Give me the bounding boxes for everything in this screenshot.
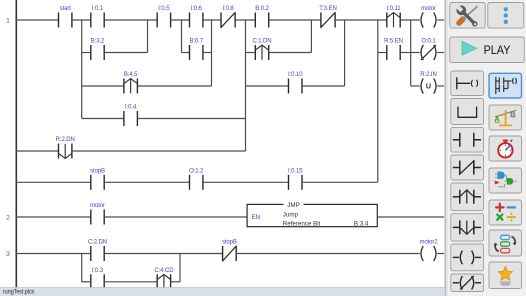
svg-text:B:3.2: B:3.2: [91, 39, 105, 45]
svg-text:I:0.1: I:0.1: [92, 6, 104, 12]
right toolbar panel background: [445, 0, 526, 296]
svg-text:C:4.CD: C:4.CD: [154, 268, 174, 274]
svg-text:I:0.4: I:0.4: [125, 105, 137, 111]
svg-text:I:0.10: I:0.10: [288, 72, 303, 78]
svg-text:I:0.8: I:0.8: [222, 6, 234, 12]
wire junction vertical v3 B:0.7 branch start: [181, 20, 183, 53]
svg-text:2: 2: [6, 214, 10, 221]
wire junction vertical v7 I:0.10 rejoin: [344, 20, 346, 86]
contact I:0.11 (osr_up): [387, 13, 400, 28]
status bar: [0, 288, 445, 296]
wire R:2.DN branch rail lead: [16, 150, 59, 152]
wire rung2 rail to motor contact: [16, 216, 91, 218]
contact I:0.1 (no): [91, 13, 104, 28]
contact B:0.2 (no): [255, 13, 268, 28]
wire O:0.1 coil left lead: [411, 52, 420, 54]
wire rung2 motor contact to JMP box: [104, 216, 247, 218]
svg-text:EN: EN: [252, 214, 261, 221]
contact stopB (no): [91, 175, 104, 190]
contact I:0.3 (no): [91, 274, 104, 289]
wire junction vertical v1 after start down to I:0.4 row: [81, 20, 83, 119]
contact B:3.2 (no): [91, 45, 104, 60]
wire rung3 stopB to motor2 coil: [236, 253, 420, 255]
wire rung3 branch I:0.3 to C:4.CD: [104, 281, 157, 283]
svg-text:stopB: stopB: [222, 240, 237, 246]
contact R:2.DN (osr_dn): [59, 144, 72, 159]
wire I:0.15 to junction v8: [302, 181, 378, 183]
button tool sequence/loop: [489, 230, 522, 256]
wire rung1 I:0.8 to B:0.2: [235, 19, 255, 21]
svg-text:I:0.11: I:0.11: [387, 6, 402, 12]
wire rung3 rail to C:2.DN: [16, 253, 91, 255]
contact I:0.8 (nc): [221, 12, 236, 28]
svg-text:I:0.3: I:0.3: [92, 268, 104, 274]
button tool timer (stopwatch): [489, 136, 522, 161]
wire O:1.2 to I:0.15: [203, 181, 289, 183]
wire C:1.DN branch left lead: [246, 52, 256, 54]
contact B:4.5 (osr_up): [124, 79, 137, 94]
button settings (wrench & screwdriver): [450, 3, 485, 29]
wire rung1 T:3.EN to I:0.11: [335, 19, 387, 21]
wire rung1 motor coil to right end: [437, 19, 444, 21]
wire junction vertical v9 output branch junction: [410, 20, 412, 86]
contact C:4.CD (osr_up): [157, 274, 170, 289]
svg-text:R:2.DN: R:2.DN: [56, 137, 75, 143]
wire junction vertical v8 long junction to stopB row: [377, 20, 379, 182]
svg-text:Reference Bit: Reference Bit: [283, 220, 321, 227]
wire junction vertical v11 rung3 branch rejoin: [179, 254, 181, 282]
contact T:3.EN (nc): [321, 12, 336, 28]
wire stopB row rail lead: [16, 181, 91, 183]
wire R:5.EN branch left lead: [378, 52, 387, 54]
button tool new-rung: [451, 71, 484, 96]
svg-text:motor2: motor2: [419, 240, 438, 246]
wire B:0.7 branch left lead: [182, 52, 190, 54]
wire junction vertical v10 rung3 branch start: [81, 254, 83, 282]
button tool compare (scales): [489, 105, 522, 130]
wire R:5.EN branch right lead: [400, 52, 411, 54]
wire I:0.4 branch left lead: [82, 118, 124, 120]
svg-text:O:0.1: O:0.1: [421, 39, 436, 45]
svg-text:1: 1: [6, 17, 10, 24]
wire rung1 I:0.1 to I:0.5: [104, 19, 157, 21]
wire junction vertical v6 C:1.DN rejoin: [310, 20, 312, 53]
wire junction vertical v2 B:3.2 rejoin: [147, 20, 149, 53]
button PLAY button: [450, 37, 524, 63]
contact start (no): [59, 13, 72, 28]
contact C:2.DN (no): [91, 246, 104, 261]
button tool branch: [451, 99, 484, 125]
svg-text:I:0.15: I:0.15: [288, 169, 303, 175]
button tool math operations: [489, 200, 522, 225]
svg-text:B: B: [510, 109, 515, 118]
contact I:0.15 (no): [289, 175, 303, 190]
button tool coil negated: [451, 274, 484, 292]
svg-text:3: 3: [6, 251, 10, 258]
svg-text:motor: motor: [421, 6, 436, 12]
contact I:0.5 (no): [157, 13, 170, 28]
wire rung3 C:2.DN to stopB: [104, 253, 222, 255]
wire B:4.5 branch left lead: [82, 85, 124, 87]
coil O:0.1 (neg): [421, 45, 436, 60]
wire B:4.5 branch right lead: [137, 85, 211, 87]
coil motor2 (plain): [421, 246, 436, 261]
svg-text:R:5.EN: R:5.EN: [384, 39, 403, 45]
wire B:0.7 branch right lead: [203, 52, 212, 54]
svg-text:motor: motor: [90, 203, 105, 209]
wire rung1 I:0.6 to I:0.8: [203, 19, 221, 21]
svg-text:PLAY: PLAY: [484, 43, 511, 57]
contact B:0.7 (no): [190, 45, 203, 60]
button tool contact NC: [451, 155, 484, 180]
button tool one-shot rising: [451, 183, 484, 211]
wire rung1 I:0.5 to I:0.6: [171, 19, 190, 21]
wire I:0.10 branch right lead: [302, 85, 345, 87]
wire O:0.1 coil right lead: [437, 52, 444, 54]
svg-text:U: U: [426, 82, 431, 91]
wire R:2.DN branch right lead: [72, 150, 246, 152]
wire stopB to O:1.2: [104, 181, 189, 183]
button tool logic gates: [489, 168, 522, 193]
svg-text:C:1.DN: C:1.DN: [252, 39, 271, 45]
wire I:0.4 branch right lead: [137, 118, 245, 120]
button menu (3 dots): [488, 3, 524, 29]
svg-text:stopB: stopB: [90, 169, 105, 175]
wire junction vertical v4 B:0.7/B:4.5 rejoin: [211, 20, 213, 86]
left power rail: [15, 0, 17, 288]
wire rung3 branch left lead: [82, 281, 91, 283]
svg-text:C:2.DN: C:2.DN: [88, 240, 107, 246]
svg-text:B:0.7: B:0.7: [189, 39, 203, 45]
contact motor (no): [91, 210, 104, 225]
button tool contact NO: [451, 127, 484, 152]
svg-text:JMP: JMP: [287, 202, 300, 209]
wire I:0.10 branch left lead: [246, 85, 289, 87]
svg-text:R:2.IN: R:2.IN: [420, 72, 436, 78]
wire C:1.DN branch right lead: [269, 52, 312, 54]
wire rung2 JMP box to right end: [377, 216, 444, 218]
svg-text:T:3.EN: T:3.EN: [319, 6, 336, 12]
svg-text:B:0.2: B:0.2: [255, 6, 269, 12]
button tool ladder-element (selected): [489, 73, 522, 98]
contact stopB (nc) rung3: [222, 246, 236, 262]
svg-text:A: A: [494, 115, 499, 124]
wire rung3 branch right lead: [171, 281, 180, 283]
wire B:3.2 branch right lead: [104, 52, 147, 54]
svg-text:B:3.4: B:3.4: [354, 220, 369, 227]
wire junction vertical v5 long junction to R:2.DN row: [245, 20, 247, 151]
wire B:3.2 branch left lead: [82, 52, 91, 54]
contact R:5.EN (no): [387, 45, 400, 60]
contact I:0.6 (no): [190, 13, 203, 28]
contact I:0.10 (no): [289, 79, 303, 94]
svg-text:B:4.5: B:4.5: [124, 72, 138, 78]
coil motor (plain): [421, 12, 436, 27]
svg-text:start: start: [60, 6, 72, 12]
wire rung1 start to I:0.1: [72, 19, 91, 21]
wire R:2.IN coil left lead: [411, 85, 420, 87]
wire rung3 motor2 coil to right end: [437, 253, 444, 255]
wire rung1 B:0.2 to T:3.EN: [269, 19, 321, 21]
svg-text:I:0.6: I:0.6: [191, 6, 203, 12]
contact I:0.4 (no): [124, 111, 137, 126]
button tool coil: [451, 244, 484, 271]
contact C:1.DN (osr_up): [255, 45, 268, 60]
wire rung1 I:0.11 to motor coil: [400, 19, 420, 21]
coil R:2.IN (u): [421, 78, 436, 93]
instruction box JMP (Jump, Reference Bit B:3.4): [247, 202, 377, 228]
wire rung1 rail to start: [16, 19, 59, 21]
svg-text:Jump: Jump: [283, 211, 299, 218]
button tool favourites (star): [489, 262, 522, 289]
svg-text:O:1.2: O:1.2: [189, 169, 204, 175]
svg-text:rungTest.plcs: rungTest.plcs: [3, 289, 34, 296]
contact O:1.2 (no): [190, 175, 203, 190]
wire R:2.IN coil right lead: [437, 85, 444, 87]
svg-text:I:0.5: I:0.5: [158, 6, 170, 12]
button tool one-shot falling: [451, 214, 484, 241]
